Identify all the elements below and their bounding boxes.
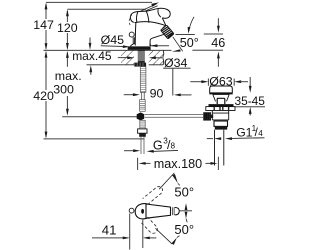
- arrow up tip (67.4,50.9): [66, 51, 69, 58]
- body right edge above aerator boss: [163, 26, 166, 28]
- lever end cap: [175, 207, 180, 214]
- arrow up tip (46,2.4): [45, 2, 48, 9]
- deck hatching right of hole: [149, 51, 164, 65]
- lever rings: [171, 207, 175, 215]
- arrow up tip (46,50.3) below: [45, 51, 48, 58]
- svg-text:50°: 50°: [174, 185, 194, 200]
- svg-text:50°: 50°: [180, 36, 199, 50]
- deck hatching left of hole: [121, 51, 134, 65]
- flange dark band: [209, 104, 234, 106]
- deck top line: [44, 49, 224, 51]
- neck inner rod box: [217, 98, 225, 104]
- svg-text:300: 300: [53, 83, 74, 97]
- arrow down tip (46,139.4): [45, 132, 48, 139]
- shank nut: [134, 63, 146, 67]
- lower 50deg leader: [156, 228, 173, 244]
- lever boss: [135, 204, 149, 219]
- left tick: [137, 158, 139, 170]
- body right edge below aerator boss: [150, 34, 165, 46]
- flange rim: [206, 107, 235, 111]
- dim max45 arrows x=88.7: [89, 43, 93, 72]
- dashed lever ghost upper (+50): [143, 187, 163, 205]
- svg-text:max.45: max.45: [72, 49, 112, 63]
- boss dark dot: [141, 209, 144, 214]
- svg-text:Ø63: Ø63: [209, 75, 233, 89]
- dashed lever ghost lower (-50): [142, 217, 158, 233]
- extension ticks: [130, 214, 143, 250]
- base side flares: [130, 43, 150, 46]
- lever lift arrowhead: [151, 2, 159, 6]
- svg-text:4: 4: [258, 129, 263, 138]
- spout outlet circle: [129, 208, 134, 213]
- hose nut: [138, 129, 147, 133]
- svg-text:41: 41: [102, 222, 117, 237]
- coupling box: [214, 121, 228, 126]
- thin neck between corrugations: [142, 92, 145, 99]
- upper 50deg leader: [159, 173, 174, 189]
- dim line 147/420 vertical x=46: [45, 4, 47, 137]
- tailpipe: [215, 130, 224, 166]
- svg-text:420: 420: [33, 89, 54, 103]
- body box: [212, 111, 228, 121]
- lever grip/cartridge joint: [146, 11, 149, 23]
- connector pipe: [141, 137, 144, 154]
- svg-text:90: 90: [150, 87, 164, 101]
- deck section cut edge: [163, 50, 164, 64]
- dim Ø34 hole arrows: [118, 57, 128, 59]
- lever body tapering: [146, 204, 171, 218]
- svg-text:35-45: 35-45: [235, 94, 266, 108]
- svg-text:max.: max.: [55, 69, 82, 83]
- grip ghost dashes: [129, 15, 132, 26]
- pop-up rod knob circle on body left: [129, 32, 134, 37]
- lever grip outline: [130, 8, 170, 22]
- extension line 420 bottom y=139.7: [44, 138, 145, 140]
- side tee: knurled nut + pipe: [145, 113, 214, 121]
- extension line max300 bottom y=116.8: [62, 116, 138, 118]
- arrow down tip (46,50.3): [45, 43, 48, 50]
- svg-text:Ø45: Ø45: [101, 33, 125, 47]
- right tick: [217, 157, 219, 170]
- aerator axis extension: [173, 37, 183, 52]
- svg-text:8: 8: [171, 142, 176, 151]
- base foot band (dark): [128, 46, 151, 50]
- connector thread (dark): [139, 133, 146, 137]
- knob dome: [210, 86, 233, 93]
- svg-text:G: G: [153, 138, 163, 152]
- dim line 120/max300 vertical x=67.4: [66, 11, 68, 114]
- body cap top curve: [135, 22, 167, 26]
- extension line y=34.3: [176, 33, 224, 36]
- aerator boss (knurled, angled 50deg): [161, 25, 175, 39]
- arrowhead lying on deck: [172, 49, 181, 51]
- svg-text:G1: G1: [236, 126, 252, 140]
- svg-text:max.180: max.180: [154, 157, 202, 171]
- grip inner detail: [137, 12, 138, 22]
- dark band below: [215, 127, 227, 130]
- lever inner hook line: [162, 18, 166, 26]
- svg-text:50°: 50°: [174, 222, 194, 237]
- junction nut (dark): [137, 112, 145, 120]
- svg-text:46: 46: [211, 36, 225, 50]
- lever lift indicator lines: [141, 4, 158, 11]
- lever inner slot curve: [158, 9, 161, 17]
- rim ribs: [214, 107, 228, 110]
- arrow down tip (67.4,50): [66, 43, 69, 50]
- neck trapezoid: [213, 94, 229, 101]
- hose lower corrugation: [140, 120, 145, 129]
- knob bottom dark line: [209, 92, 232, 94]
- horizontal pipe to hose junction: [145, 115, 204, 118]
- extension line top y=2.4 (lever max height): [46, 1, 152, 3]
- deck bottom line (max.45): [87, 64, 164, 66]
- centerline + double arrow: [180, 210, 193, 212]
- curved arrow to line: [189, 17, 194, 32]
- extension line y=9.2 (lever rest height): [67, 8, 146, 10]
- extension from shelf down to 90-dim: [172, 68, 174, 95]
- pop-up rod pin: [133, 37, 134, 43]
- arrow up tip (67.4,9.2): [66, 9, 69, 16]
- arrow down tip (67.4,115.8): [66, 109, 69, 116]
- svg-text:120: 120: [57, 21, 78, 35]
- body left edge: [134, 22, 137, 45]
- svg-text:147: 147: [33, 18, 54, 32]
